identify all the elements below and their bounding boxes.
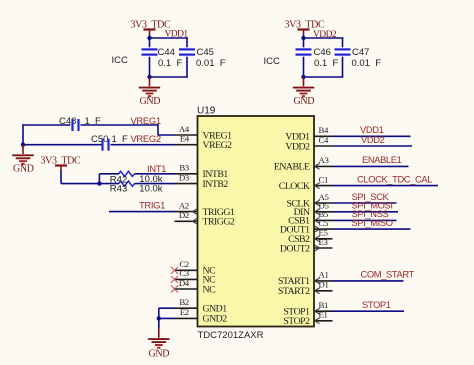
svg-text:A3: A3 [319, 155, 330, 165]
svg-text:STOP2: STOP2 [283, 316, 310, 327]
wire bottom rail C46-C47 [303, 76, 344, 78]
svg-text:C44: C44 [158, 47, 175, 58]
svg-text:C5: C5 [319, 218, 329, 228]
pin B2 GND1 stub [175, 307, 198, 309]
input arrow at pin D5 [315, 209, 320, 215]
svg-text:E3: E3 [319, 237, 329, 247]
svg-text:STOP1: STOP1 [362, 299, 391, 310]
pin D3 INTB2 stub [175, 183, 198, 185]
power flag 3V3_TDC (right block) [298, 30, 310, 35]
wire VREG1 jog down [157, 124, 159, 135]
wire net VDD1 [333, 135, 411, 137]
power flag 3V3_TDC (left block) [144, 30, 156, 35]
wire pull-up to junction [61, 183, 99, 185]
svg-text:VDD2: VDD2 [361, 134, 385, 145]
ground symbol (left block) [139, 77, 160, 96]
wire GND stem [158, 318, 160, 328]
no-connect X at pin y=289 [171, 285, 178, 292]
svg-text:INT1: INT1 [147, 164, 166, 175]
capacitor C47 [335, 49, 351, 77]
input arrow at pin B1 [315, 308, 320, 314]
svg-text:ICC: ICC [264, 56, 281, 67]
wire net COM_START [333, 280, 404, 282]
svg-text:ICC: ICC [112, 55, 129, 66]
pin C4 VDD2 stub [314, 145, 333, 147]
wire down to C47 [342, 38, 344, 47]
wire VDD1 top rail [150, 37, 189, 39]
pin arrow (left side) at y=221.3 [192, 218, 197, 224]
input arrow at pin E1 [315, 318, 320, 324]
wire net SPI_SCK [333, 202, 397, 204]
wire net SPI_NSS [333, 219, 397, 221]
pin arrow (left side) at y=211.6 [192, 209, 197, 215]
svg-text:CLOCK: CLOCK [279, 181, 310, 192]
junction GND1/GND2 [157, 316, 161, 320]
svg-text:A1: A1 [319, 270, 329, 280]
output arrow at pin C5 [315, 226, 320, 232]
wire left vertical rail [22, 124, 24, 145]
svg-text:10.0k: 10.0k [139, 183, 162, 194]
svg-text:D3: D3 [179, 172, 190, 182]
wire VREG2 rail right of C50 [111, 144, 176, 146]
capacitor C46 [296, 38, 312, 77]
input arrow at pin A3 [315, 164, 320, 170]
ground symbol (IC GND pins) [148, 329, 169, 348]
wire TRIG1 to pin A2 [109, 211, 175, 213]
svg-text:ENABLE: ENABLE [274, 162, 310, 173]
svg-text:GND: GND [13, 163, 34, 174]
no-connect X at pin y=279.4 [171, 276, 178, 283]
resistor R42 [119, 171, 135, 176]
svg-text:0.01 F: 0.01 F [196, 58, 226, 69]
wire pin E2 GND2 [159, 317, 175, 319]
power flag 3V3_TDC (pull-up) [55, 166, 67, 171]
svg-text:VREG2: VREG2 [203, 140, 233, 151]
svg-text:COM_START: COM_START [361, 269, 415, 280]
svg-text:VREG1: VREG1 [131, 116, 161, 127]
svg-text:GND: GND [140, 96, 161, 107]
pin A2 TRIGG1 stub [175, 211, 198, 213]
svg-text:DOUT2: DOUT2 [280, 243, 310, 254]
svg-text:1 F: 1 F [112, 134, 129, 145]
input arrow at pin E5 [315, 236, 320, 242]
pin A3 ENABLE stub [314, 165, 333, 167]
junction at C44 top [147, 36, 151, 40]
svg-text:C3: C3 [179, 268, 189, 278]
pin C3 NC stub [175, 278, 198, 280]
pin B1 STOP1 stub [314, 310, 333, 312]
pin B4 VDD1 stub [314, 135, 333, 137]
junction at C46 bottom [301, 75, 305, 79]
resistor R43 [119, 181, 135, 186]
wire bottom rail C44-C45 [149, 76, 188, 78]
svg-text:C47: C47 [352, 47, 369, 58]
wire pin B2 GND1 [159, 307, 175, 309]
input arrow at pin C1 [315, 183, 320, 189]
pin C1 CLOCK stub [314, 185, 333, 187]
svg-text:0.1 F: 0.1 F [158, 58, 182, 69]
svg-text:C46: C46 [314, 47, 331, 58]
svg-text:C1: C1 [319, 174, 328, 184]
pin D4 NC stub [175, 288, 198, 290]
input arrow at pin A5 [315, 200, 320, 206]
svg-text:VREG2: VREG2 [131, 134, 161, 145]
svg-text:0.1 F: 0.1 F [314, 58, 338, 69]
svg-text:CLOCK_TDC_CAL: CLOCK_TDC_CAL [357, 173, 432, 184]
svg-text:C4: C4 [319, 135, 329, 145]
wire net SPI_MOSI [333, 211, 399, 213]
svg-text:B4: B4 [319, 125, 329, 135]
output arrow at pin E3 [315, 245, 320, 251]
pin E1 STOP2 stub [314, 320, 333, 322]
svg-text:VDD2: VDD2 [285, 141, 310, 152]
svg-text:GND2: GND2 [203, 314, 228, 325]
wire pull-up stem down [60, 170, 62, 184]
pin D5 DIN stub [314, 211, 333, 213]
ground symbol (right block) [293, 77, 314, 96]
input arrow at pin A1 [315, 278, 320, 284]
svg-text:TRIG1: TRIG1 [139, 201, 165, 212]
pin D2 TRIGG2 stub [175, 220, 198, 222]
svg-text:E4: E4 [180, 134, 190, 144]
svg-text:E1: E1 [319, 310, 328, 320]
svg-text:TRIGG2: TRIGG2 [203, 217, 235, 228]
capacitor C50 (series, horizontal) [103, 139, 109, 151]
svg-text:C50: C50 [91, 134, 108, 145]
op IC U19 body [198, 116, 315, 327]
wire VREG1 rail right of C48 [81, 124, 159, 126]
junction R42/R43 [97, 181, 101, 185]
svg-text:INTB2: INTB2 [203, 179, 229, 190]
svg-text:A4: A4 [179, 124, 190, 134]
svg-text:GND: GND [294, 96, 315, 107]
svg-text:0.01 F: 0.01 F [352, 58, 382, 69]
svg-text:U19: U19 [197, 106, 216, 117]
wire net VDD2 [333, 145, 413, 147]
wire R42 to pin B3 [135, 173, 176, 175]
input arrow at pin D1 [315, 288, 320, 294]
svg-text:GND: GND [149, 349, 170, 360]
junction at C46 top [301, 36, 305, 40]
wire net STOP1 [333, 310, 405, 312]
svg-text:B2: B2 [179, 297, 188, 307]
svg-text:D4: D4 [179, 278, 190, 288]
pin E3 DOUT2 stub [314, 247, 333, 249]
wire stem to node VDD1 [149, 35, 151, 39]
svg-text:SPI_MISO: SPI_MISO [352, 217, 393, 228]
wire net CLOCK_TDC_CAL [333, 185, 439, 187]
junction VREG rail to ground [21, 143, 25, 147]
svg-text:A2: A2 [179, 200, 189, 210]
wire into R42 [99, 173, 119, 175]
pin E4 VREG2 stub [175, 144, 198, 146]
pin B3 INTB1 stub [175, 173, 198, 175]
wire VREG1 into pin A4 [158, 134, 175, 136]
wire stem to node VDD2 [303, 35, 305, 39]
svg-text:ENABLE1: ENABLE1 [362, 154, 402, 165]
junction at C44 bottom [147, 75, 151, 79]
svg-text:B3: B3 [179, 163, 189, 173]
svg-text:B1: B1 [319, 300, 328, 310]
svg-text:R43: R43 [110, 183, 127, 194]
wire VDD2 top rail [304, 37, 344, 39]
no-connect X at pin y=270.3 [171, 267, 178, 274]
wire VREG1 rail left of C48 [23, 124, 71, 126]
svg-text:TDC7201ZAXR: TDC7201ZAXR [198, 330, 264, 341]
svg-text:D2: D2 [179, 210, 189, 220]
pin A5 SCLK stub [314, 202, 333, 204]
pin C5 DOUT1 stub [314, 228, 333, 230]
ground symbol (VREG rail) [12, 145, 33, 164]
wire down to C45 [186, 38, 188, 47]
wire VREG2 rail left of C50 [23, 144, 102, 146]
pin B5 CSB1 stub [314, 219, 333, 221]
svg-text:D1: D1 [319, 280, 329, 290]
pin A4 VREG1 stub [175, 134, 198, 136]
svg-text:START2: START2 [278, 286, 310, 297]
pin C2 NC stub [175, 269, 198, 271]
pin E2 GND2 stub [175, 317, 198, 319]
capacitor C44 [142, 38, 158, 77]
capacitor C48 (series, horizontal) [73, 119, 79, 131]
pin E5 CSB2 stub [314, 238, 333, 240]
svg-text:E2: E2 [180, 307, 189, 317]
input arrow at pin B5 [315, 218, 320, 224]
wire R43 to pin D3 [135, 183, 176, 185]
pin A1 START1 stub [314, 280, 333, 282]
wire into R43 [99, 183, 119, 185]
wire net ENABLE1 [333, 165, 409, 167]
wire riser to R42 [98, 174, 100, 184]
wire GND corner down [158, 308, 160, 318]
capacitor C45 [179, 49, 195, 77]
pin D1 START2 stub [314, 290, 333, 292]
wire net SPI_MISO [333, 228, 411, 230]
svg-text:NC: NC [203, 284, 216, 295]
svg-text:C45: C45 [197, 47, 214, 58]
